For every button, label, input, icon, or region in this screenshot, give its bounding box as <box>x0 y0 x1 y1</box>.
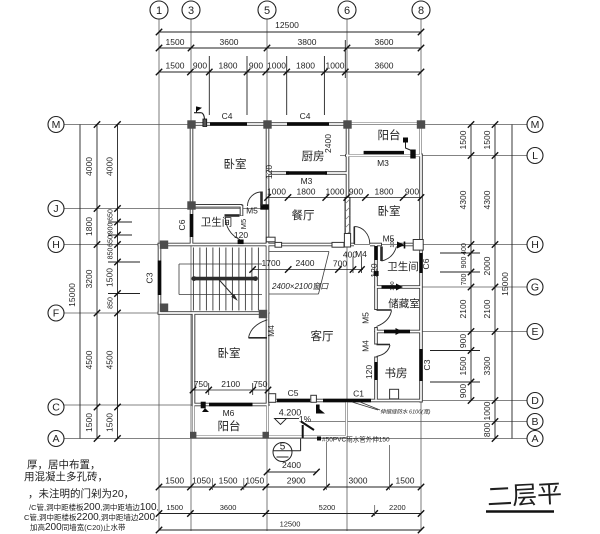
wall H living top <box>265 243 354 247</box>
vent arrow bath H <box>397 242 405 249</box>
svg-text:6: 6 <box>344 5 350 17</box>
axis J horizontal <box>64 208 268 210</box>
dim 750 2100 750 <box>193 383 268 395</box>
wall axis5 <box>266 123 270 247</box>
top dim ticks <box>156 29 424 75</box>
white piers <box>269 240 424 403</box>
axis H horizontal <box>64 244 527 246</box>
wall E <box>375 330 423 334</box>
svg-text:650: 650 <box>108 209 115 221</box>
svg-text:3600: 3600 <box>220 503 237 512</box>
svg-text:2100: 2100 <box>482 299 492 318</box>
svg-text:厚，居中布置，: 厚，居中布置， <box>27 458 101 471</box>
svg-text:厨房: 厨房 <box>302 150 325 163</box>
svg-text:C5: C5 <box>288 388 299 398</box>
svg-text:B: B <box>531 416 538 428</box>
svg-text:1000: 1000 <box>267 61 286 71</box>
svg-text:J: J <box>53 203 58 215</box>
svg-text:1000: 1000 <box>482 401 492 420</box>
fixture flag top C4 <box>197 107 201 113</box>
svg-text:1000: 1000 <box>326 61 345 71</box>
svg-text:3200: 3200 <box>84 269 94 288</box>
window C4 left <box>210 122 247 125</box>
stairs treads <box>193 248 258 311</box>
svg-text:1500: 1500 <box>105 413 115 432</box>
window C3 left <box>158 261 161 296</box>
svg-text:1500: 1500 <box>458 130 468 149</box>
svg-text:4000: 4000 <box>105 157 115 176</box>
svg-text:D: D <box>531 395 539 407</box>
svg-text:1800: 1800 <box>375 187 394 197</box>
axis 8 vertical <box>420 19 422 531</box>
svg-text:餐厅: 餐厅 <box>292 208 315 222</box>
stair right edge <box>266 244 269 314</box>
right dim ticks <box>468 121 498 441</box>
svg-text:8: 8 <box>418 5 424 17</box>
svg-text:A: A <box>531 433 538 445</box>
top axis bubbles <box>150 1 430 19</box>
fixture C5 pier flag <box>316 405 320 414</box>
svg-text:2000: 2000 <box>482 256 492 275</box>
svg-text:4300: 4300 <box>482 190 492 209</box>
svg-text:750: 750 <box>253 379 267 389</box>
svg-text:F: F <box>53 308 59 320</box>
corner block bedroom door <box>260 204 268 209</box>
svg-text:2400: 2400 <box>296 258 315 268</box>
columns dark <box>160 120 425 438</box>
svg-text:2100: 2100 <box>458 299 468 318</box>
door M4 hall <box>354 227 370 245</box>
walls white cores <box>159 124 422 437</box>
door study M4 <box>377 345 391 357</box>
svg-text:M6: M6 <box>223 408 235 418</box>
bottom dim texts <box>165 460 414 529</box>
svg-text:1500: 1500 <box>396 476 415 486</box>
svg-text:H: H <box>52 239 60 251</box>
svg-text:伸缩缝防水 6100(宽): 伸缩缝防水 6100(宽) <box>380 409 431 416</box>
svg-text:3600: 3600 <box>375 37 394 47</box>
door M3 balcony bar <box>364 151 404 154</box>
piers at H wall <box>266 234 350 248</box>
top dim texts <box>166 20 394 71</box>
wall J bathroom top <box>190 204 243 208</box>
vent arrow G wall <box>396 284 403 291</box>
wall D <box>266 399 423 403</box>
door bath-left M5 <box>225 216 240 240</box>
svg-text:1: 1 <box>156 5 162 17</box>
window C3 right upper <box>419 253 422 273</box>
svg-text:100: 100 <box>390 281 396 290</box>
door M3 kitchen bar <box>286 171 327 175</box>
axis F horizontal <box>64 312 270 314</box>
svg-text:卫生间: 卫生间 <box>387 260 419 273</box>
svg-text:M: M <box>52 119 61 131</box>
svg-text:C4: C4 <box>300 111 311 121</box>
svg-text:C6: C6 <box>177 219 187 230</box>
svg-text:卧室: 卧室 <box>378 204 401 218</box>
svg-text:400: 400 <box>461 243 468 255</box>
svg-text:A: A <box>52 433 59 445</box>
svg-text:12500: 12500 <box>275 20 299 30</box>
svg-text:2200: 2200 <box>389 503 406 512</box>
svg-text:L: L <box>532 150 538 162</box>
svg-text:900: 900 <box>249 61 263 71</box>
svg-text:C4: C4 <box>222 111 233 121</box>
stair opening trapezoid living <box>269 252 330 295</box>
svg-text:E: E <box>531 326 538 338</box>
svg-text:3600: 3600 <box>220 37 239 47</box>
axis 5 vertical <box>266 19 268 531</box>
top dim subdivision extenders <box>208 56 210 115</box>
axis A horizontal <box>64 438 527 440</box>
axis 3 vertical <box>190 19 192 531</box>
svg-text:4500: 4500 <box>105 350 115 369</box>
svg-text:M5: M5 <box>239 219 248 229</box>
door bath right M5 <box>382 247 397 262</box>
svg-text:H: H <box>531 239 539 251</box>
balcony top rail <box>345 122 423 125</box>
svg-text:1800: 1800 <box>296 61 315 71</box>
wall axis1 outer <box>158 243 162 315</box>
door storage M5 <box>377 310 392 327</box>
svg-text:1500: 1500 <box>166 503 183 512</box>
axis B horizontal <box>305 421 527 423</box>
svg-text:卧室: 卧室 <box>218 346 241 360</box>
svg-text:M: M <box>531 119 540 131</box>
svg-text:2400×2100窗口: 2400×2100窗口 <box>271 282 329 291</box>
right dimension lines <box>430 125 512 439</box>
svg-text:M4: M4 <box>266 325 276 337</box>
svg-text:加高200同墙宽(C20)止水带: 加高200同墙宽(C20)止水带 <box>30 522 126 533</box>
svg-text:3600: 3600 <box>375 61 394 71</box>
svg-text:1500: 1500 <box>166 61 185 71</box>
axis G horizontal <box>374 286 527 288</box>
title underline <box>486 510 554 513</box>
svg-text:650: 650 <box>108 235 115 247</box>
svg-text:1800: 1800 <box>297 187 316 197</box>
svg-text:二层平: 二层平 <box>486 480 562 512</box>
svg-text:800: 800 <box>482 423 492 437</box>
svg-text:12500: 12500 <box>280 520 301 529</box>
svg-text:120: 120 <box>364 365 374 379</box>
left dim texts rotated <box>67 157 115 432</box>
wall H stair top <box>158 243 270 247</box>
svg-text:4300: 4300 <box>458 190 468 209</box>
svg-text:15000: 15000 <box>500 272 510 296</box>
window C1 <box>323 399 371 402</box>
wall L balcony door <box>345 154 423 157</box>
wall kitchen bottom <box>266 171 289 175</box>
axis L horizontal <box>340 155 527 157</box>
section cut bubble 5 <box>273 439 301 462</box>
svg-text:#50PVC雨水管外伸150: #50PVC雨水管外伸150 <box>322 435 390 444</box>
axis E horizontal <box>374 331 527 333</box>
wall M top <box>189 122 349 126</box>
svg-text:2100: 2100 <box>221 379 240 389</box>
grid axis vertical lines <box>159 19 421 531</box>
svg-text:5: 5 <box>280 442 286 453</box>
svg-text:1000: 1000 <box>267 187 286 197</box>
svg-text:3800: 3800 <box>298 37 317 47</box>
svg-text:M5: M5 <box>361 312 371 324</box>
svg-text:M5: M5 <box>246 206 258 216</box>
window C4 right <box>287 122 329 125</box>
svg-text:900: 900 <box>193 61 207 71</box>
svg-text:15000: 15000 <box>67 283 77 307</box>
door bedroom top M5 <box>248 192 262 207</box>
left dim ticks <box>94 121 121 441</box>
bath left wall stubs <box>374 246 377 260</box>
svg-text:1700: 1700 <box>262 258 281 268</box>
svg-text:书房: 书房 <box>385 367 408 380</box>
wall C with door M6 <box>192 403 269 407</box>
svg-text:1500: 1500 <box>165 476 184 486</box>
svg-text:3000: 3000 <box>349 476 368 486</box>
hatch on axis6 wall <box>345 199 350 236</box>
svg-text:700: 700 <box>333 259 347 269</box>
grid axis horizontal lines <box>64 125 527 439</box>
svg-text:储藏室: 储藏室 <box>388 297 420 310</box>
right axis bubbles <box>527 117 543 447</box>
svg-text:5: 5 <box>264 5 270 17</box>
slope arrow <box>301 422 314 431</box>
svg-text:M4: M4 <box>355 249 367 259</box>
bottom dim ticks <box>156 469 424 533</box>
svg-text:，未注明的门剁为20，: ，未注明的门剁为20， <box>28 487 134 500</box>
svg-text:120: 120 <box>369 263 379 277</box>
svg-text:1000: 1000 <box>326 187 345 197</box>
wall axis8 outer <box>419 154 423 403</box>
wall bath left <box>374 243 378 310</box>
svg-text:用混凝土多孔砖，: 用混凝土多孔砖， <box>24 470 108 483</box>
svg-text:900: 900 <box>458 334 468 348</box>
svg-text:阳台: 阳台 <box>218 419 241 433</box>
axis 6 vertical <box>346 19 348 531</box>
svg-text:900: 900 <box>108 223 115 235</box>
svg-text:2400: 2400 <box>323 134 333 153</box>
svg-text:1500: 1500 <box>482 130 492 149</box>
svg-text:C3: C3 <box>422 359 432 370</box>
svg-text:1050: 1050 <box>192 476 211 486</box>
vent arrow E wall <box>396 328 403 335</box>
svg-text:3: 3 <box>188 5 194 17</box>
svg-text:1500: 1500 <box>219 476 238 486</box>
svg-text:M3: M3 <box>301 176 313 186</box>
svg-text:120: 120 <box>234 230 248 240</box>
svg-text:5200: 5200 <box>319 503 336 512</box>
left dimension lines <box>80 125 140 439</box>
svg-text:1800: 1800 <box>219 61 238 71</box>
notes text block <box>24 458 134 500</box>
svg-text:客厅: 客厅 <box>311 329 334 343</box>
interior dim row y269 <box>253 257 363 274</box>
svg-text:4500: 4500 <box>84 350 94 369</box>
stair arrow <box>218 278 237 300</box>
window C5 <box>277 399 310 402</box>
vent bar G wall <box>382 285 397 288</box>
terrace rails <box>266 404 269 438</box>
svg-text:850: 850 <box>108 248 115 260</box>
svg-text:2900: 2900 <box>287 476 306 486</box>
svg-text:C6: C6 <box>421 258 431 269</box>
wall G <box>375 285 423 289</box>
svg-text:1800: 1800 <box>84 217 94 236</box>
svg-text:M3: M3 <box>377 158 389 168</box>
wall bathroom right <box>240 205 244 216</box>
svg-text:900: 900 <box>461 257 468 269</box>
svg-text:1500: 1500 <box>105 268 115 287</box>
svg-text:1500: 1500 <box>84 413 94 432</box>
thin rail walls <box>193 123 423 438</box>
svg-text:120: 120 <box>264 165 274 179</box>
bottom dimension lines <box>159 472 421 530</box>
svg-text:900: 900 <box>405 187 419 197</box>
svg-text:900: 900 <box>349 187 363 197</box>
vent bar E wall <box>384 330 410 333</box>
walls outer dark lines <box>158 123 423 407</box>
balcony bottom left rails <box>192 404 195 438</box>
svg-text:100: 100 <box>390 238 396 247</box>
window C6 <box>190 214 193 237</box>
svg-text:阳台: 阳台 <box>378 128 401 142</box>
svg-text:M4: M4 <box>361 340 371 352</box>
axis M horizontal <box>64 124 527 126</box>
wall axis3 left outer <box>190 123 194 247</box>
left axis bubbles <box>48 117 64 447</box>
svg-text:卫生间: 卫生间 <box>201 216 233 229</box>
stair landing box <box>179 264 262 295</box>
top dimension lines <box>159 32 421 115</box>
wall axis6 <box>346 123 350 201</box>
svg-text:G: G <box>531 282 539 294</box>
wall F <box>158 311 269 315</box>
fixture M6 <box>201 402 206 409</box>
svg-text:850: 850 <box>108 297 115 309</box>
door bedroom bottom M4 <box>249 320 268 338</box>
axis 1 vertical <box>158 19 160 531</box>
wall bedroom left <box>192 312 196 407</box>
stair rail bar <box>192 277 258 281</box>
svg-text:1500: 1500 <box>166 37 185 47</box>
bottom extension lines <box>212 442 389 516</box>
axis C horizontal <box>64 404 270 406</box>
svg-text:1500: 1500 <box>458 356 468 375</box>
svg-text:C1: C1 <box>353 389 364 399</box>
drain pipe terrace <box>302 425 304 438</box>
axis D horizontal <box>290 400 527 402</box>
svg-text:700: 700 <box>461 274 468 286</box>
door M6 bar <box>209 403 253 407</box>
right dim texts rotated <box>458 130 510 437</box>
svg-text:3300: 3300 <box>482 356 492 375</box>
svg-text:C管,洞中距楼板2200,洞中距墙边200,: C管,洞中距楼板2200,洞中距墙边200, <box>24 512 157 523</box>
svg-text:4000: 4000 <box>84 157 94 176</box>
svg-text:卧室: 卧室 <box>224 157 247 171</box>
window C3 right lower <box>419 349 422 381</box>
svg-text:750: 750 <box>194 379 208 389</box>
svg-text:900: 900 <box>458 384 468 398</box>
svg-text:C: C <box>52 402 60 414</box>
interior dim row y197 <box>268 197 422 199</box>
fixture balcony drain <box>403 138 408 143</box>
svg-text:C3: C3 <box>145 272 155 283</box>
svg-text:1050: 1050 <box>245 476 264 486</box>
